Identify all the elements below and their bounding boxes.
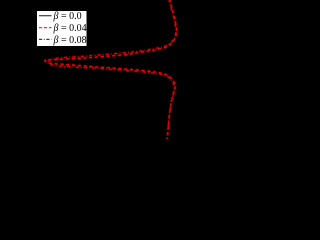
legend line beta=0.04 (red dashed)	[39, 27, 52, 29]
legend box	[37, 11, 88, 47]
svg-text:β = 0.0: β = 0.0	[53, 11, 82, 22]
svg-text:β = 0.04: β = 0.04	[53, 23, 87, 34]
curve beta=0.04 (red dashed resonance curve)	[45, 0, 177, 140]
legend line beta=0.08 (dark dash-dot)	[39, 38, 52, 40]
curve halo underlay	[45, 0, 177, 140]
curve beta=0.08 (red dash-dot resonance curve)	[47, 0, 176, 140]
legend line beta=0.0 (solid black)	[39, 15, 52, 17]
svg-text:β = 0.08: β = 0.08	[53, 35, 87, 46]
